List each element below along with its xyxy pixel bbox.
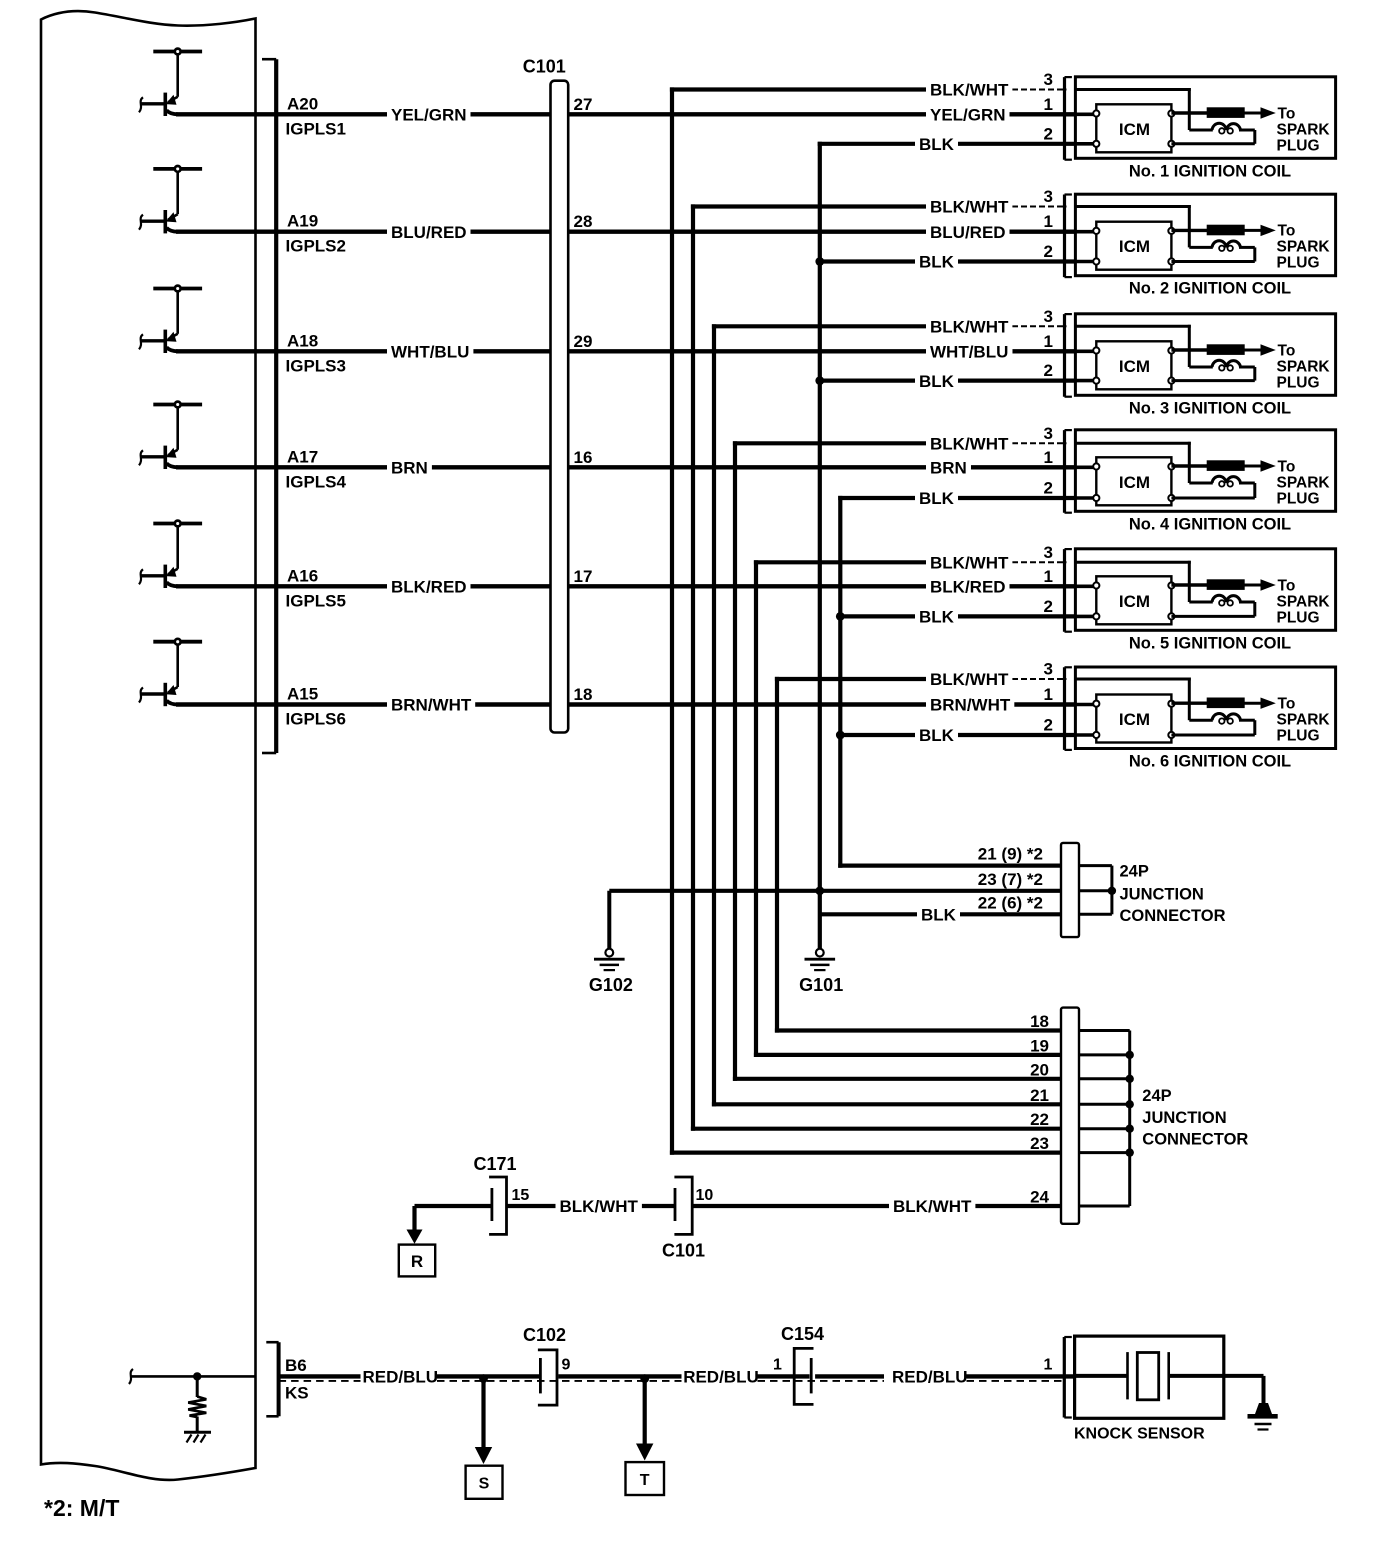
label BLK/WHT (C101-junction) <box>889 1197 975 1215</box>
coil 4 output to arrow <box>1245 465 1263 468</box>
svg-text:IGPLS4: IGPLS4 <box>286 472 347 491</box>
ECM/PCM module outline (torn paper edge) <box>41 11 256 1480</box>
coil 6 pin1 stub <box>1075 703 1096 707</box>
arrow to spark plug coil 2 <box>1261 225 1276 236</box>
svg-text:CONNECTOR: CONNECTOR <box>1142 1131 1248 1149</box>
coil 5 primary return wire <box>1171 602 1254 616</box>
svg-text:BLK/WHT: BLK/WHT <box>560 1197 639 1216</box>
svg-text:A15: A15 <box>287 685 318 704</box>
svg-text:PLUG: PLUG <box>1277 728 1320 745</box>
svg-text:PLUG: PLUG <box>1277 609 1320 626</box>
ground (internal ECM) <box>184 1432 211 1442</box>
label BRN/WHT (left segment) <box>387 696 475 714</box>
pin numbers 3 1 2 coil 5 <box>1044 543 1053 616</box>
ignition coil No.2 box <box>1075 194 1335 276</box>
coil 5 secondary winding bar <box>1207 579 1245 590</box>
svg-text:BLK/WHT: BLK/WHT <box>930 670 1009 689</box>
svg-text:9: 9 <box>562 1357 571 1374</box>
coil 1 output to arrow <box>1245 112 1263 115</box>
coil 1 secondary winding bar <box>1207 107 1245 118</box>
wire BLK No.2 coil pin 2 right segment <box>957 259 1077 263</box>
ICM terminal circles coil 4 <box>1093 463 1174 501</box>
svg-text:A20: A20 <box>287 94 318 113</box>
ignition coil No.6 box <box>1075 667 1335 749</box>
svg-text:To: To <box>1278 105 1296 122</box>
coil 5 internal wire pin3 feed <box>1075 561 1212 602</box>
svg-text:1: 1 <box>1044 212 1053 231</box>
junction dot BLK bus coil 3 <box>815 376 824 385</box>
label 24P JUNCTION CONNECTOR (lower) <box>1142 1087 1248 1149</box>
arrow and box T <box>626 1379 665 1495</box>
svg-text:BLK: BLK <box>919 608 955 627</box>
svg-text:24P: 24P <box>1142 1087 1171 1105</box>
label 24P JUNCTION CONNECTOR (upper) <box>1120 863 1226 926</box>
coil 3 internal wire pin3 feed <box>1075 325 1212 367</box>
svg-text:23: 23 <box>1030 1134 1049 1153</box>
label To Spark Plug coil 5 <box>1277 577 1331 626</box>
24P junction connector (lower) bar <box>1061 1008 1079 1224</box>
pin numbers 3 1 2 coil 4 <box>1044 424 1053 498</box>
ignition coil No.1 box <box>1075 77 1335 159</box>
label To Spark Plug coil 3 <box>1277 342 1331 391</box>
svg-text:1: 1 <box>1044 685 1053 704</box>
ignition coil unit No.4 bracket <box>1065 430 1072 513</box>
ignition coil unit No.6 bracket <box>1065 667 1072 750</box>
wire BLK No.1 coil pin 2 right segment <box>957 142 1077 146</box>
coil 6 primary return wire <box>1171 720 1254 735</box>
svg-text:1: 1 <box>1044 1357 1053 1374</box>
coil 3 pin1 stub <box>1075 349 1096 353</box>
resistor (knock filter, internal) <box>188 1376 206 1431</box>
coil 2 output to arrow <box>1245 229 1263 232</box>
arrow to spark plug coil 3 <box>1261 344 1276 355</box>
svg-text:PLUG: PLUG <box>1277 374 1320 391</box>
coil 2 pin1 stub <box>1075 230 1096 234</box>
label BLK/RED (left segment) <box>387 577 471 595</box>
coil 2 pin2 stub <box>1075 260 1096 264</box>
wire BLK No.3 coil pin 2 right segment <box>957 379 1077 383</box>
connector C101 (main harness bar) <box>551 81 569 733</box>
label YEL/GRN (left segment) <box>387 105 471 123</box>
svg-text:WHT/BLU: WHT/BLU <box>391 343 469 362</box>
svg-text:BLK: BLK <box>919 372 955 391</box>
wire shield (dashed) <box>279 1380 1065 1382</box>
junction connector upper right links <box>1079 866 1116 915</box>
svg-text:2: 2 <box>1044 597 1053 616</box>
wire BLK/WHT No.3 coil pin 3 branch <box>712 324 928 328</box>
arrow to spark plug coil 6 <box>1261 698 1276 709</box>
svg-text:BRN/WHT: BRN/WHT <box>391 696 472 715</box>
label WHT/BLU (coil 3 segment) <box>926 342 1012 360</box>
svg-text:BLK: BLK <box>919 135 955 154</box>
svg-text:2: 2 <box>1044 242 1053 261</box>
svg-text:B6: B6 <box>285 1356 307 1375</box>
ICM terminal circles coil 1 <box>1093 110 1174 146</box>
svg-text:C154: C154 <box>781 1324 824 1344</box>
ICM module U2 <box>1096 222 1171 270</box>
junction dot BLK bus coil 6 <box>836 731 845 740</box>
coil 6 secondary winding bar <box>1207 698 1245 709</box>
coil 4 secondary output wire <box>1171 464 1208 467</box>
ECM knock-sensor input wire (internal) <box>129 1369 133 1384</box>
wire BLK/WHT junction-connector row 21 <box>712 1102 1063 1106</box>
svg-text:ICM: ICM <box>1119 473 1150 492</box>
junction connector lower right links <box>1079 1031 1134 1207</box>
label BLK coil 4 <box>915 489 958 507</box>
svg-text:SPARK: SPARK <box>1277 712 1331 729</box>
junction dot BLK bus coil 5 <box>836 612 845 621</box>
coil 1 secondary output wire <box>1171 111 1208 114</box>
svg-text:1: 1 <box>773 1357 782 1374</box>
wire BLK/WHT junction-connector row 23 <box>670 1150 1063 1154</box>
transistor Q2 (IGPLS2 driver inside ECM) <box>139 166 202 233</box>
svg-text:29: 29 <box>574 332 593 351</box>
coil 6 primary winding L6 <box>1212 713 1241 723</box>
coil 5 pin2 stub <box>1075 615 1096 619</box>
ICM module U5 <box>1096 576 1171 624</box>
coil 3 pin2 stub <box>1075 379 1096 383</box>
wire BLK to 24P junction connector pin 22 (6) *2 <box>820 912 1063 916</box>
svg-text:20: 20 <box>1030 1060 1049 1079</box>
svg-text:R: R <box>411 1252 423 1271</box>
svg-text:BLK: BLK <box>919 253 955 272</box>
svg-text:No. 1 IGNITION COIL: No. 1 IGNITION COIL <box>1129 162 1291 180</box>
svg-text:24P: 24P <box>1120 863 1149 881</box>
svg-text:C171: C171 <box>473 1154 516 1174</box>
svg-text:S: S <box>479 1476 490 1493</box>
coil 4 pin2 stub <box>1075 496 1096 500</box>
svg-text:A19: A19 <box>287 212 318 231</box>
coil 4 internal wire pin3 feed <box>1075 442 1212 483</box>
svg-text:CONNECTOR: CONNECTOR <box>1120 907 1226 925</box>
svg-text:YEL/GRN: YEL/GRN <box>930 106 1006 125</box>
svg-text:1: 1 <box>1044 95 1053 114</box>
wire BLK No.4 coil pin 2 right segment <box>957 496 1077 500</box>
wire BRN/WHT (A15 to C101 pin 18 to No.6 coil pin 1) <box>176 702 926 706</box>
wire to 24P junction connector pin 21 (9) *2 <box>838 863 1063 867</box>
ICM module U1 <box>1096 104 1171 152</box>
svg-text:19: 19 <box>1030 1036 1049 1055</box>
wire BLK/WHT No.1 coil pin 3 branch <box>670 87 928 91</box>
svg-text:To: To <box>1278 696 1296 713</box>
wire BRN (A17 to C101 pin 16 to No.4 coil pin 1) <box>176 465 926 469</box>
coil 5 output to arrow <box>1245 584 1263 587</box>
label BLK junction wire <box>917 905 960 923</box>
label WHT/BLU (left segment) <box>387 342 473 360</box>
coil 5 secondary output wire <box>1171 583 1208 586</box>
svg-text:BLK/WHT: BLK/WHT <box>930 81 1009 100</box>
svg-text:2: 2 <box>1044 716 1053 735</box>
svg-text:BLK/WHT: BLK/WHT <box>930 554 1009 573</box>
label BLK/WHT (C171-C101) <box>556 1197 642 1215</box>
svg-text:SPARK: SPARK <box>1277 239 1331 256</box>
24P junction connector (upper) bar <box>1061 843 1079 937</box>
svg-text:C102: C102 <box>523 1325 566 1345</box>
svg-text:No. 2 IGNITION COIL: No. 2 IGNITION COIL <box>1129 280 1291 298</box>
ICM module U4 <box>1096 457 1171 505</box>
svg-text:BLU/RED: BLU/RED <box>391 223 467 242</box>
coil 4 pin1 stub <box>1075 465 1096 469</box>
svg-text:To: To <box>1278 223 1296 240</box>
label BLK/WHT coil 6 <box>926 670 1012 688</box>
svg-text:16: 16 <box>574 448 593 467</box>
wire to 24P junction connector pin 23 (7) *2 / ground tie <box>609 889 1063 893</box>
wire BLK ground bus for coils 1-3 <box>818 142 822 949</box>
ICM terminal circles coil 5 <box>1093 582 1174 619</box>
svg-text:BRN: BRN <box>391 459 428 478</box>
ignition coil unit No.3 bracket <box>1065 314 1072 397</box>
svg-text:IGPLS3: IGPLS3 <box>286 356 346 375</box>
wire BLK/WHT No.2 coil pin 3 branch <box>691 204 928 208</box>
arrow to spark plug coil 4 <box>1261 460 1276 471</box>
svg-text:IGPLS5: IGPLS5 <box>286 591 346 610</box>
junction dot BLK bus coil 2 <box>815 257 824 266</box>
coil 1 pin2 stub <box>1075 142 1096 146</box>
wire BLK/RED (A16 to C101 pin 17 to No.5 coil pin 1) <box>176 584 926 588</box>
svg-text:G101: G101 <box>799 975 843 995</box>
svg-text:To: To <box>1278 342 1296 359</box>
label BRN/WHT (coil 6 segment) <box>926 696 1014 714</box>
coil 2 internal wire pin3 feed <box>1075 205 1212 247</box>
connector C154 <box>773 1324 824 1404</box>
coil 5 pin1 stub <box>1075 584 1096 588</box>
ECM connector bracket (pins A15-A20) <box>262 59 276 753</box>
svg-text:18: 18 <box>574 685 593 704</box>
coil 6 secondary output wire <box>1171 702 1208 705</box>
arrow to spark plug coil 5 <box>1261 579 1276 590</box>
knock sensor case ground <box>1248 1376 1278 1430</box>
label BLK coil 3 <box>915 372 958 390</box>
svg-text:2: 2 <box>1044 361 1053 380</box>
svg-text:RED/BLU: RED/BLU <box>683 1368 759 1387</box>
label BRN (coil 4 segment) <box>926 458 971 476</box>
coil 2 secondary output wire <box>1171 229 1208 232</box>
wire YEL/GRN (A20 to C101 pin 27 to No.1 coil pin 1) <box>176 112 926 116</box>
svg-text:A17: A17 <box>287 447 318 466</box>
svg-text:RED/BLU: RED/BLU <box>363 1368 439 1387</box>
svg-text:PLUG: PLUG <box>1277 137 1320 154</box>
wire BLU/RED (A19 to C101 pin 28 to No.2 coil pin 1) <box>176 229 926 233</box>
wire BLK ground bus for coils 4-6 <box>838 496 842 868</box>
svg-text:RED/BLU: RED/BLU <box>892 1368 968 1387</box>
label BLK/RED (coil 5 segment) <box>926 577 1010 595</box>
label BLK coil 6 <box>915 726 958 744</box>
pin numbers 3 1 2 coil 1 <box>1044 70 1053 143</box>
wire BLK No.5 coil pin 2 <box>840 614 916 618</box>
svg-text:BLK/RED: BLK/RED <box>391 578 467 597</box>
coil 2 primary return wire <box>1171 247 1254 261</box>
label BLK coil 1 <box>915 135 958 153</box>
coil 3 primary return wire <box>1171 367 1254 381</box>
svg-text:SPARK: SPARK <box>1277 358 1331 375</box>
svg-text:28: 28 <box>574 212 593 231</box>
svg-text:No. 3 IGNITION COIL: No. 3 IGNITION COIL <box>1129 399 1291 417</box>
svg-text:3: 3 <box>1044 307 1053 326</box>
svg-text:To: To <box>1278 458 1296 475</box>
label To Spark Plug coil 1 <box>1277 105 1331 154</box>
ICM terminal circles coil 2 <box>1093 228 1174 265</box>
coil 3 secondary winding bar <box>1207 344 1245 355</box>
svg-text:3: 3 <box>1044 187 1053 206</box>
ignition coil No.4 box <box>1075 430 1335 512</box>
svg-text:G102: G102 <box>589 975 633 995</box>
svg-text:C101: C101 <box>523 57 566 77</box>
coil 3 secondary output wire <box>1171 348 1208 351</box>
label BLK/WHT coil 2 <box>926 198 1012 216</box>
coil 6 internal wire pin3 feed <box>1075 678 1212 721</box>
pin numbers 3 1 2 coil 2 <box>1044 187 1053 261</box>
wire BLK No.6 coil pin 2 <box>840 733 916 737</box>
ignition coil unit No.5 bracket <box>1065 549 1072 632</box>
junction dot knock filter <box>193 1372 201 1380</box>
svg-text:3: 3 <box>1044 543 1053 562</box>
connector C102 <box>523 1325 571 1405</box>
label BLU/RED (left segment) <box>387 223 471 241</box>
ground G102 <box>589 891 633 995</box>
branch dot to test point S <box>479 1374 488 1383</box>
svg-text:PLUG: PLUG <box>1277 490 1320 507</box>
knock sensor bracket <box>1064 1337 1072 1418</box>
svg-text:BLK: BLK <box>919 726 955 745</box>
svg-text:10: 10 <box>696 1187 714 1204</box>
wire BLK No.5 coil pin 2 right segment <box>957 614 1077 618</box>
coil 1 pin1 stub <box>1075 113 1096 117</box>
svg-text:23 (7) *2: 23 (7) *2 <box>978 870 1043 889</box>
label To Spark Plug coil 2 <box>1277 223 1331 272</box>
label BLK/WHT coil 3 <box>926 317 1012 335</box>
svg-text:BLK/WHT: BLK/WHT <box>930 318 1009 337</box>
transistor Q6 (IGPLS6 driver inside ECM) <box>139 639 202 706</box>
wire BLK/WHT No.5 coil pin 3 branch <box>754 560 928 564</box>
svg-text:ICM: ICM <box>1119 120 1150 139</box>
svg-text:15: 15 <box>512 1187 530 1204</box>
ignition coil No.5 box <box>1075 549 1335 631</box>
svg-text:ICM: ICM <box>1119 237 1150 256</box>
svg-text:BLK/WHT: BLK/WHT <box>930 435 1009 454</box>
transistor Q4 (IGPLS4 driver inside ECM) <box>139 402 202 469</box>
svg-text:BRN: BRN <box>930 459 967 478</box>
coil 2 primary winding L2 <box>1212 241 1241 251</box>
svg-text:2: 2 <box>1044 124 1053 143</box>
svg-text:C101: C101 <box>662 1241 705 1261</box>
svg-text:1: 1 <box>1044 567 1053 586</box>
knock sensor element (piezo) <box>1075 1352 1264 1400</box>
wire BLK/WHT C171 pin 15 to C101 pin 10 to junction pin 24 <box>415 1204 492 1208</box>
ignition coil unit No.2 bracket <box>1065 195 1072 278</box>
ignition coil unit No.1 bracket <box>1065 77 1072 160</box>
wire WHT/BLU (A18 to C101 pin 29 to No.3 coil pin 1) <box>176 349 926 353</box>
label To Spark Plug coil 4 <box>1277 458 1331 507</box>
svg-text:18: 18 <box>1030 1012 1049 1031</box>
svg-text:IGPLS6: IGPLS6 <box>286 710 346 729</box>
svg-text:21 (9) *2: 21 (9) *2 <box>978 845 1043 864</box>
coil 5 primary winding L5 <box>1212 595 1241 605</box>
knock sensor box <box>1075 1336 1224 1418</box>
wire drop to relay box R <box>412 1206 416 1232</box>
ICM terminal circles coil 6 <box>1093 701 1174 739</box>
label BRN (left segment) <box>387 458 432 476</box>
svg-text:BLK/WHT: BLK/WHT <box>930 198 1009 217</box>
svg-text:KS: KS <box>285 1384 309 1403</box>
arrow into box R <box>407 1230 423 1244</box>
label BLK/WHT coil 5 <box>926 553 1012 571</box>
wire BLK/WHT junction-connector row 22 <box>691 1127 1063 1131</box>
svg-text:27: 27 <box>574 95 593 114</box>
svg-text:22: 22 <box>1030 1110 1049 1129</box>
wire BLK/WHT No.4 coil pin 3 branch <box>733 441 928 445</box>
coil 4 primary winding L4 <box>1212 476 1241 486</box>
wire BLK/WHT No.6 coil pin 3 branch <box>775 677 928 681</box>
svg-text:PLUG: PLUG <box>1277 255 1320 272</box>
wire BLK/WHT junction-connector row 19 <box>754 1053 1063 1057</box>
svg-text:No. 4 IGNITION COIL: No. 4 IGNITION COIL <box>1129 515 1291 533</box>
svg-text:KNOCK SENSOR: KNOCK SENSOR <box>1074 1426 1205 1443</box>
svg-text:JUNCTION: JUNCTION <box>1142 1109 1226 1127</box>
coil 6 pin2 stub <box>1075 733 1096 737</box>
ICM module U3 <box>1096 341 1171 389</box>
wire BLK/WHT junction-connector row 20 <box>733 1077 1063 1081</box>
svg-text:BLK: BLK <box>921 906 957 925</box>
svg-text:BLK: BLK <box>919 489 955 508</box>
svg-text:BRN/WHT: BRN/WHT <box>930 696 1011 715</box>
svg-text:A16: A16 <box>287 566 318 585</box>
svg-text:1: 1 <box>1044 448 1053 467</box>
svg-text:No. 5 IGNITION COIL: No. 5 IGNITION COIL <box>1129 634 1291 652</box>
transistor Q5 (IGPLS5 driver inside ECM) <box>139 521 202 588</box>
svg-text:1: 1 <box>1044 332 1053 351</box>
arrow and box S <box>466 1379 503 1499</box>
svg-text:SPARK: SPARK <box>1277 593 1331 610</box>
wire BLK/WHT junction-connector row 18 <box>775 1028 1063 1032</box>
arrow to spark plug coil 1 <box>1261 107 1276 118</box>
svg-text:*2: M/T: *2: M/T <box>44 1495 119 1521</box>
svg-text:ICM: ICM <box>1119 357 1150 376</box>
junction dot BLK bus at ground tie <box>815 886 824 895</box>
svg-text:IGPLS2: IGPLS2 <box>286 237 346 256</box>
ICM module U6 <box>1096 695 1171 743</box>
svg-text:SPARK: SPARK <box>1277 121 1331 138</box>
coil 1 primary return wire <box>1171 130 1254 144</box>
branch dot to test point T <box>640 1374 649 1383</box>
label YEL/GRN (coil 1 segment) <box>926 105 1010 123</box>
svg-text:ICM: ICM <box>1119 592 1150 611</box>
svg-text:24: 24 <box>1030 1188 1049 1207</box>
svg-text:BLK/WHT: BLK/WHT <box>893 1197 972 1216</box>
connector C101 (branch, pin 10) <box>662 1177 713 1261</box>
coil 2 secondary winding bar <box>1207 225 1245 236</box>
svg-text:T: T <box>640 1472 650 1489</box>
svg-text:3: 3 <box>1044 424 1053 443</box>
label BLK coil 5 <box>915 607 958 625</box>
connector C171 <box>473 1154 529 1234</box>
svg-text:BLK/RED: BLK/RED <box>930 578 1006 597</box>
svg-text:SPARK: SPARK <box>1277 474 1331 491</box>
svg-text:YEL/GRN: YEL/GRN <box>391 106 467 125</box>
label BLK coil 2 <box>915 253 958 271</box>
svg-text:17: 17 <box>574 567 593 586</box>
svg-text:No. 6 IGNITION COIL: No. 6 IGNITION COIL <box>1129 753 1291 771</box>
label BLK/WHT coil 1 <box>926 81 1012 99</box>
wire BLK No.2 coil pin 2 <box>820 259 916 263</box>
coil 4 primary return wire <box>1171 483 1254 498</box>
label BLK/WHT coil 4 <box>926 434 1012 452</box>
pin numbers 3 1 2 coil 6 <box>1044 660 1053 735</box>
svg-text:BLU/RED: BLU/RED <box>930 223 1006 242</box>
label To Spark Plug coil 6 <box>1277 696 1331 745</box>
svg-text:WHT/BLU: WHT/BLU <box>930 343 1008 362</box>
svg-text:To: To <box>1278 577 1296 594</box>
ECM connector bracket pin B6 KS <box>266 1342 308 1416</box>
